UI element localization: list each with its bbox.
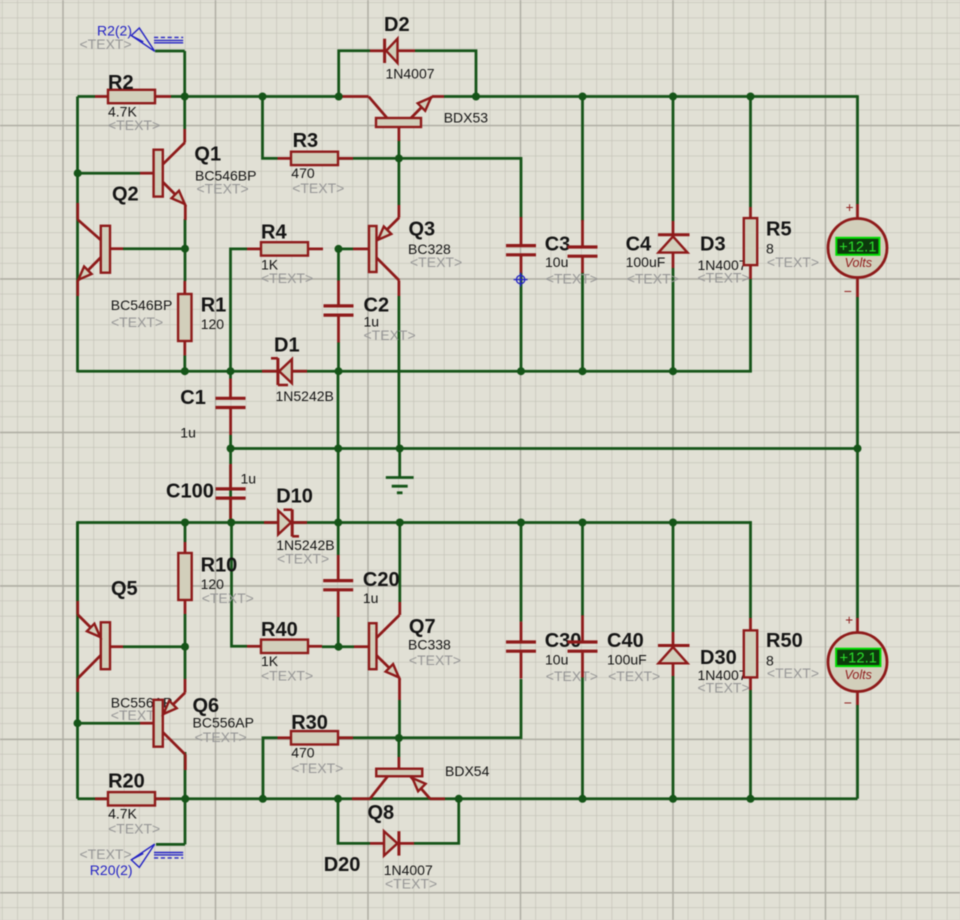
voltmeter U1 +12.1 Volts (856, 204, 859, 219)
svg-text:<TEXT>: <TEXT> (202, 590, 254, 606)
svg-text:10u: 10u (545, 254, 568, 270)
wire voltmeter U1 top feed (856, 95, 859, 204)
wire C4 bottom to rail (581, 272, 584, 372)
svg-text:Q3: Q3 (409, 219, 436, 241)
svg-text:BC546BP: BC546BP (111, 297, 172, 313)
svg-text:<TEXT>: <TEXT> (767, 254, 819, 270)
svg-text:R50: R50 (766, 630, 803, 652)
resistor R3 470 (278, 157, 292, 160)
wire R40 right to Q7 base junction (322, 645, 354, 648)
svg-text:R2: R2 (108, 72, 134, 94)
svg-text:<TEXT>: <TEXT> (277, 551, 329, 567)
svg-text:<TEXT>: <TEXT> (698, 680, 750, 696)
wire Q7 collector to rail A junction (398, 523, 401, 603)
svg-text:<TEXT>: <TEXT> (111, 314, 163, 330)
svg-text:<TEXT>: <TEXT> (261, 668, 313, 684)
wire BDX54 base vertical (398, 738, 401, 757)
junction dots bottom rail (181, 795, 189, 803)
capacitor C100 1u (229, 464, 232, 488)
transistor Q6 BC556AP pnp (140, 722, 154, 725)
svg-text:<TEXT>: <TEXT> (261, 270, 313, 286)
wire C20 bottom to R40 junction (337, 617, 340, 647)
svg-text:<TEXT>: <TEXT> (767, 665, 819, 681)
wire Q5 emitter feed from rail A (76, 523, 79, 602)
svg-text:Volts: Volts (845, 668, 872, 682)
wire voltmeter U2 top feed from mid rail (856, 449, 859, 619)
svg-text:<TEXT>: <TEXT> (410, 254, 462, 270)
svg-text:Q7: Q7 (409, 616, 436, 638)
voltmeter U2 +12.1 Volts (856, 618, 859, 633)
wire voltmeter U1 bottom to mid rail (856, 297, 859, 449)
svg-text:<TEXT>: <TEXT> (608, 668, 660, 684)
wire R50 column from rail A (749, 521, 752, 618)
diode D30 1N4007 (vertical) (672, 632, 675, 645)
svg-text:1K: 1K (261, 653, 279, 669)
wire C40 column from rail A (581, 523, 584, 617)
junction dot R10/Q5/Q6 node (181, 643, 189, 651)
svg-text:<TEXT>: <TEXT> (80, 36, 132, 52)
wire R30 row: junction to C30 column corner (399, 679, 521, 738)
svg-text:−: − (844, 695, 852, 711)
origin marker (blue) (514, 273, 528, 287)
svg-text:R10: R10 (201, 554, 238, 576)
diode D20 1N4007 (370, 842, 384, 845)
wire C20 column from rail A junction (337, 523, 340, 556)
svg-text:Q5: Q5 (111, 578, 138, 600)
svg-text:1u: 1u (363, 590, 379, 606)
capacitor C20 1u (337, 555, 340, 579)
wire left vertical rail x=77.5 (76, 97, 79, 373)
svg-text:C1: C1 (180, 387, 206, 409)
resistor R10 120 (184, 542, 187, 553)
svg-text:C3: C3 (545, 234, 571, 256)
wire C1 to mid-rail junction to C100 (green part) (229, 435, 232, 464)
wire left vertical rail bottom half x=77.5 (76, 521, 79, 799)
svg-text:BDX53: BDX53 (444, 110, 489, 126)
diode D2 1N4007 (370, 49, 384, 52)
diode D3 1N4007 (vertical) (672, 221, 675, 234)
wire D20 right vertical (414, 799, 459, 844)
svg-text:R1: R1 (201, 295, 227, 317)
svg-text:<TEXT>: <TEXT> (385, 876, 437, 892)
svg-text:120: 120 (201, 316, 225, 332)
wire R40 left corner column from rail A (232, 523, 248, 647)
wire R5 bottom to rail corner (749, 279, 752, 372)
svg-text:R30: R30 (291, 712, 328, 734)
wire column x=338 from bottom rail to mid rail (337, 371, 340, 448)
net label R20(2) pointer (156, 843, 185, 846)
svg-text:Q2: Q2 (112, 184, 139, 206)
wire Q7 emitter down to BDX54 base junction (398, 700, 401, 738)
capacitor C3 10u (520, 217, 523, 244)
transistor U2 BDX54 pnp darlington (398, 757, 401, 769)
svg-text:<TEXT>: <TEXT> (292, 180, 344, 196)
wire R1 bottom to bottom rail (183, 356, 186, 373)
svg-text:<TEXT>: <TEXT> (698, 270, 750, 286)
wire Q6 base from left rail junction (78, 722, 141, 725)
wire top rail R2-right to BDX53 collector junction (171, 95, 340, 98)
junction dot R3/BDX53 base node (395, 154, 403, 162)
svg-text:<TEXT>: <TEXT> (197, 181, 249, 197)
svg-text:1N5242B: 1N5242B (276, 388, 334, 404)
capacitor C1 1u (229, 379, 232, 398)
wire R5 column from top rail (749, 97, 752, 208)
wire C2 bottom to rail junction (337, 342, 340, 371)
svg-text:Q8: Q8 (368, 802, 395, 824)
svg-text:R4: R4 (261, 222, 287, 244)
svg-text:<TEXT>: <TEXT> (80, 846, 132, 862)
svg-text:C20: C20 (363, 569, 400, 591)
wire D2 left vertical from top rail (339, 51, 370, 97)
svg-text:<TEXT>: <TEXT> (364, 327, 416, 343)
svg-text:<TEXT>: <TEXT> (627, 271, 679, 287)
svg-text:D30: D30 (700, 647, 737, 669)
svg-text:<TEXT>: <TEXT> (409, 652, 461, 668)
wire bottom rail y=798.8 (78, 797, 858, 800)
wire D30 bottom to rail (672, 676, 675, 799)
junction dots top rail (181, 93, 189, 101)
svg-text:470: 470 (291, 165, 315, 181)
svg-text:10u: 10u (545, 652, 568, 668)
resistor R2 4.7K (95, 95, 108, 98)
svg-text:R20: R20 (108, 771, 145, 793)
wire top rail left segment (R2 row) (78, 95, 96, 98)
wire BDX53 base junction to C3 column corner (399, 158, 521, 218)
wire C100 column from mid rail to rail A (229, 465, 232, 524)
wire C4 column from top rail (581, 97, 584, 222)
resistor R30 470 (278, 736, 292, 739)
wire D3 bottom to rail (672, 268, 675, 372)
svg-text:D20: D20 (324, 854, 361, 876)
ground symbol (386, 476, 414, 479)
svg-text:+: + (846, 200, 854, 215)
wire C40 bottom to rail (581, 677, 584, 799)
svg-text:+: + (845, 612, 853, 627)
svg-text:+12.1: +12.1 (839, 650, 876, 666)
wire Q5 base to junction (123, 645, 185, 648)
wire Q3 base to R4 junction (339, 248, 354, 251)
capacitor C4 100uF (581, 220, 584, 246)
svg-text:D1: D1 (274, 335, 300, 357)
transistor Q3 BC328 pnp (353, 248, 369, 251)
wire top rail BDX53 emitter to right corner, down to voltmeter (444, 95, 858, 98)
svg-text:<TEXT>: <TEXT> (108, 117, 160, 133)
wire column x=338.2 mid rail to rail A (337, 449, 340, 523)
svg-text:C4: C4 (626, 234, 652, 256)
svg-text:BC338: BC338 (408, 637, 451, 653)
svg-text:470: 470 (291, 745, 315, 761)
svg-text:C100: C100 (166, 481, 214, 503)
wire D2 right vertical to top rail (415, 51, 476, 97)
transistor Q1 BC546BP npn (140, 172, 154, 175)
transistor Q7 BC338 npn (354, 645, 369, 648)
wire Q6 emitter junction (184, 647, 187, 679)
svg-text:Q1: Q1 (194, 144, 221, 166)
junction dot Q1 base (74, 169, 82, 177)
svg-text:100uF: 100uF (626, 254, 666, 270)
svg-text:R3: R3 (293, 130, 319, 152)
zener diode D1 1N5242B (262, 370, 277, 373)
capacitor C40 100uF (581, 615, 584, 640)
transistor Q2 BC546BP npn (mirrored) (108, 247, 123, 250)
junction dots mid rail (227, 445, 235, 453)
svg-text:<TEXT>: <TEXT> (291, 760, 343, 776)
svg-text:R20(2): R20(2) (90, 862, 133, 878)
junction dot R30/BDX54 base node (395, 734, 403, 742)
svg-text:R40: R40 (261, 619, 298, 641)
capacitor C2 1u (337, 281, 340, 305)
svg-text:D3: D3 (700, 234, 726, 256)
wire BDX53 base vertical (398, 140, 401, 158)
resistor R1 120 (183, 281, 186, 294)
wire D20 left vertical (338, 799, 370, 844)
svg-text:R5: R5 (766, 219, 792, 241)
svg-text:<TEXT>: <TEXT> (546, 668, 598, 684)
wire C30 bottom feed (520, 524, 523, 622)
resistor R50 8 (749, 618, 752, 630)
wire Q1 emitter junction down to R1 (184, 219, 187, 281)
wire R30 right to BDX54 base junction (338, 736, 400, 739)
svg-text:D2: D2 (384, 14, 410, 36)
transistor Q5 BC556AP pnp (mirrored) (108, 645, 123, 648)
wire C3 bottom to rail (520, 273, 523, 372)
wire voltmeter U2 bottom to bottom rail (856, 705, 859, 799)
resistor R5 8 (749, 207, 752, 218)
wire C2 column below R4 junction (337, 249, 340, 281)
wire R10 column from rail A (184, 523, 187, 543)
svg-text:100uF: 100uF (607, 652, 647, 668)
wire bottom rail of top half y=371.2 (78, 370, 752, 373)
wire Q2 base to junction (123, 247, 185, 250)
svg-text:<TEXT>: <TEXT> (546, 271, 598, 287)
svg-text:Volts: Volts (845, 256, 872, 270)
zener diode D10 1N5242B (264, 521, 278, 524)
wire Q6 collector down to bottom rail (184, 752, 187, 799)
resistor R4 1K (247, 248, 261, 251)
svg-text:<TEXT>: <TEXT> (195, 729, 247, 745)
wire vertical R2-junction down to Q1 collector (183, 97, 186, 130)
svg-text:D10: D10 (276, 485, 313, 507)
svg-text:1u: 1u (241, 471, 257, 487)
junction dots bottom rail of top half (181, 367, 189, 375)
junction dot R40/C20/Q7 base node (335, 643, 343, 651)
wire D3 column from top rail (672, 97, 675, 222)
wire R3 right to BDX53 base junction (338, 157, 400, 160)
wire C1 column: rail junction down to C1 (229, 371, 232, 378)
svg-text:<TEXT>: <TEXT> (108, 821, 160, 837)
resistor R20 4.7K (95, 797, 108, 800)
wire D30 column from rail A (672, 523, 675, 633)
wire R4 left corner column down to bottom rail (231, 249, 248, 372)
net label R2(2) pointer (155, 50, 185, 53)
junction dot R4/C2/Q3 base node (335, 245, 343, 253)
svg-text:C40: C40 (607, 630, 644, 652)
wire Q3 emitter down to mid rail junction (398, 296, 401, 449)
wire R3 column from top rail (263, 97, 278, 159)
svg-text:1N4007: 1N4007 (386, 66, 435, 82)
junction dot Q6 base (74, 719, 82, 727)
wire rail A y=522.5 (bottom half top rail) (78, 521, 752, 524)
wire Q3 collector vertical to BDX53 base junction (398, 158, 401, 205)
junction dots rail A bottom half (181, 519, 189, 527)
junction dot Q1/Q2/R1 node (181, 245, 189, 253)
svg-text:−: − (844, 283, 852, 299)
wire ground lead (398, 449, 401, 478)
transistor U1 BDX53 npn darlington (340, 95, 369, 98)
wire Q1 base from left rail junction (78, 172, 141, 175)
svg-text:+12.1: +12.1 (839, 239, 876, 255)
svg-text:BDX54: BDX54 (445, 763, 490, 779)
resistor R40 1K (247, 645, 261, 648)
wire R10 bottom to Q5 base junction (184, 614, 187, 647)
wire R30 left corner column down to bottom rail (263, 738, 278, 799)
capacitor C30 10u (520, 622, 523, 641)
svg-text:1u: 1u (180, 424, 196, 440)
svg-text:4.7K: 4.7K (108, 806, 137, 822)
wire mid rail y=448.5 (231, 447, 858, 450)
wire R50 bottom to rail junction (749, 690, 752, 799)
